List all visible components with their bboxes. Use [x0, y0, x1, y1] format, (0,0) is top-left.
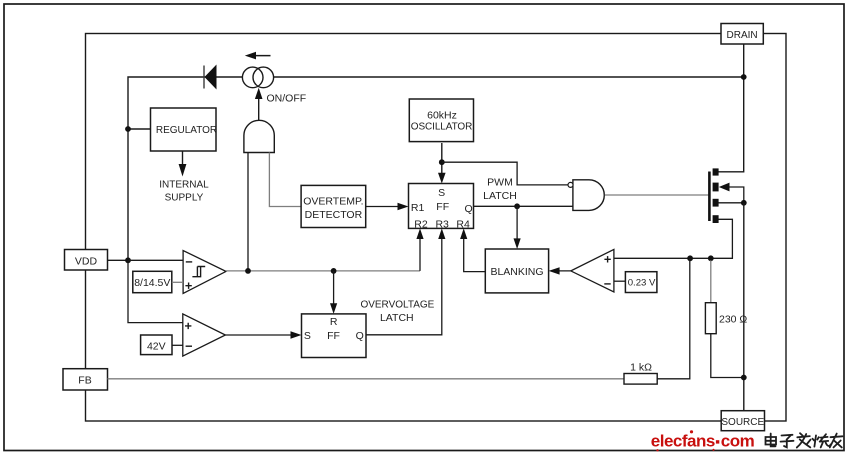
node: 1k ohm junction [687, 255, 693, 261]
node: mosfet source junction [741, 200, 747, 206]
wire: nand output to mosfet gate (gray) [605, 194, 710, 196]
overvoltage latch U5 [302, 314, 367, 358]
resistor 230 ohm [705, 260, 747, 377]
svg-text:230 Ω: 230 Ω [719, 313, 747, 325]
svg-text:PWM: PWM [487, 177, 513, 189]
wire: and-gate left input leg down to comparator output node [247, 153, 249, 271]
terminal box DRAIN [721, 24, 763, 45]
label INTERNAL SUPPLY [159, 179, 209, 203]
diode D1 [204, 65, 217, 90]
wire: top supply rail y=77 [128, 77, 744, 260]
svg-text:REGULATOR: REGULATOR [156, 125, 217, 136]
comparator U3 (undervoltage 8/14.5V with hysteresis) [183, 251, 226, 294]
node: VDD junction [125, 257, 131, 263]
wire+arrow: Q node down to blanking block [514, 206, 521, 249]
logo chinese characters (drawn strokes) [766, 433, 843, 447]
terminal box SOURCE [721, 411, 764, 431]
wire: current sense line from mosfet source to comparator plus input [614, 219, 733, 258]
svg-text:R1: R1 [411, 202, 425, 214]
wire+arrow: overvoltage latch R input [330, 271, 337, 314]
wire+arrow: oscillator to PWM latch S input [438, 143, 446, 184]
svg-text:0.23 V: 0.23 V [628, 278, 656, 289]
wire: VDD node down to 42V comparator plus input [128, 260, 183, 322]
wire: and-gate right input leg to overtemp detector [269, 153, 301, 207]
resistor 1 kohm [624, 258, 690, 384]
svg-text:LATCH: LATCH [483, 190, 517, 202]
svg-text:DRAIN: DRAIN [727, 30, 758, 41]
svg-text:OVERVOLTAGE: OVERVOLTAGE [360, 300, 434, 311]
svg-text:S: S [304, 330, 311, 342]
node: 230 ohm junction [708, 255, 714, 261]
node: source bottom junction [741, 375, 747, 381]
overtemp detector block [301, 185, 366, 227]
label PWM LATCH [483, 177, 517, 203]
svg-text:R3: R3 [435, 218, 449, 230]
wire: source vertical rail [743, 203, 745, 411]
node: drain rail junction [741, 74, 747, 80]
svg-text:FF: FF [327, 330, 340, 342]
svg-text:FF: FF [436, 201, 449, 213]
wire: VDD to node [108, 259, 129, 261]
svg-text:42V: 42V [147, 340, 166, 352]
svg-text:1 kΩ: 1 kΩ [630, 361, 652, 373]
svg-text:60kHz: 60kHz [427, 109, 457, 121]
svg-text:elecfans: elecfans [651, 431, 715, 450]
svg-text:INTERNAL: INTERNAL [159, 179, 209, 190]
logo elecfans.com [651, 430, 755, 451]
wire: oscillator node to nand bubble input [442, 162, 568, 185]
node: overvoltage latch R junction [331, 268, 337, 274]
svg-text:R4: R4 [456, 218, 470, 230]
and-gate U2 (vertical, on/off control) [244, 120, 274, 152]
oscillator block [409, 99, 473, 142]
current source I1 (on/off controlled) [242, 67, 273, 88]
wire+arrow: blanking output to PWM latch R4 [460, 228, 485, 271]
wire: mosfet source pad to node [719, 202, 744, 204]
node: Q output junction [514, 203, 520, 209]
svg-text:FB: FB [78, 375, 91, 387]
terminal box VDD [65, 250, 108, 271]
svg-text:DETECTOR: DETECTOR [305, 209, 363, 221]
terminal box FB [63, 369, 108, 390]
wire: drain vertical to mosfet [719, 44, 744, 172]
PWM latch U6 [409, 184, 474, 231]
comparator U4 (overvoltage 42V) [183, 314, 226, 356]
svg-text:OSCILLATOR: OSCILLATOR [411, 122, 472, 133]
svg-text:S: S [438, 187, 445, 199]
blanking block [485, 249, 548, 293]
arrow: regulator to internal supply [179, 151, 187, 177]
svg-text:OVERTEMP.: OVERTEMP. [303, 196, 363, 208]
node: and-gate leg junction [245, 268, 251, 274]
arrow: current direction (left) above current source [245, 52, 271, 60]
wire: node to regulator [128, 128, 151, 130]
node: regulator tap junction [125, 126, 131, 132]
wire: FB to 1k resistor (gray) [108, 378, 625, 380]
svg-text:R2: R2 [414, 218, 428, 230]
svg-text:SUPPLY: SUPPLY [165, 192, 204, 203]
wire+arrow: R2 input of PWM latch [416, 228, 423, 271]
wire+arrow: comparator U8 output into blanking [549, 267, 571, 274]
wire: 0.23V box to comparator minus input [614, 280, 626, 282]
svg-text:Q: Q [465, 203, 473, 215]
IC boundary rectangle [86, 34, 787, 422]
regulator block [151, 108, 218, 151]
svg-text:8/14.5V: 8/14.5V [134, 277, 170, 289]
wire: PWM latch Q output to nand gate lower input [474, 205, 573, 207]
svg-text:BLANKING: BLANKING [490, 266, 543, 278]
node: oscillator junction [439, 159, 445, 165]
svg-text:R: R [330, 316, 338, 328]
comparator U8 (current limit, points left) [571, 249, 614, 292]
svg-text:com: com [721, 431, 755, 450]
nand-gate U7 (with bubble input) [568, 180, 604, 211]
wire: VDD node to comparator minus input [128, 259, 183, 261]
svg-text:SOURCE: SOURCE [721, 417, 764, 428]
wire: comparator U3 output rail (gray) [226, 270, 420, 272]
reference box 8/14.5V [133, 271, 172, 292]
svg-text:VDD: VDD [75, 255, 98, 267]
wire: 42V box to comparator minus input [172, 344, 183, 346]
reference box 0.23 V [625, 272, 657, 293]
wire: 8/14.5V to comparator plus input [172, 281, 183, 283]
wire: mosfet body to source node [730, 187, 744, 203]
reference box 42V [141, 335, 172, 355]
wire+arrow: overtemp detector to PWM latch R1 [366, 203, 409, 210]
svg-text:ON/OFF: ON/OFF [267, 93, 307, 105]
svg-text:LATCH: LATCH [380, 312, 414, 324]
mosfet Q1 [709, 168, 729, 223]
wire+arrow: comparator U4 output to overvoltage latch S input [225, 331, 301, 338]
wire: overvoltage latch Q to PWM latch R3 [366, 228, 445, 334]
wire: AND gate output up to current source with arrowhead [255, 88, 263, 121]
svg-text:Q: Q [356, 330, 364, 342]
